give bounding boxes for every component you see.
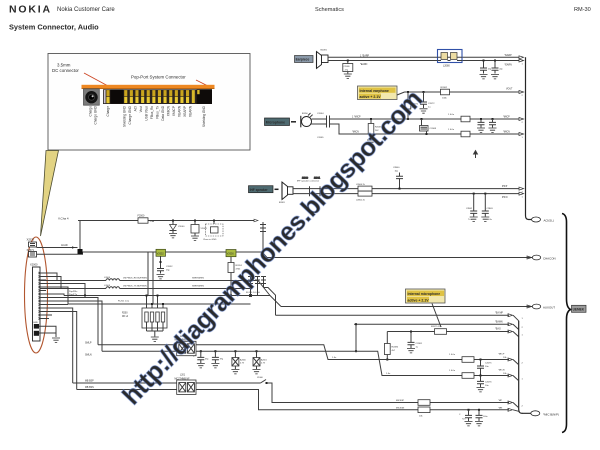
filter C2068 (420, 118, 437, 135)
offpage AUXOUT (532, 304, 555, 310)
wire VCHAR row (78, 220, 254, 222)
svg-text:*MP: *MP (498, 400, 503, 402)
svg-text:*EARP: *EARP (505, 54, 513, 57)
ground (477, 388, 485, 392)
ground (191, 236, 199, 240)
svg-text:1 0.0u: 1 0.0u (449, 354, 456, 356)
DC jack (84, 89, 100, 105)
label UEMEK (572, 305, 587, 312)
svg-text:SMR/SMSN: SMR/SMSN (192, 278, 204, 280)
wire MICB1N out (196, 390, 519, 418)
testpoint hatches (260, 222, 266, 252)
wire MIC1N out (196, 351, 519, 381)
svg-text:Microphone: Microphone (266, 121, 285, 125)
svg-text:active + 2.1V: active + 2.1V (408, 298, 430, 302)
highlight ellipse (25, 237, 48, 353)
ground (475, 422, 483, 426)
svg-text:C2072: C2072 (428, 103, 435, 105)
svg-text:L2005: L2005 (104, 285, 111, 287)
ground (480, 75, 488, 79)
svg-text:Charge GND: Charge GND (128, 105, 132, 124)
svg-text:C2052: C2052 (166, 266, 173, 268)
svg-text:V2050: V2050 (227, 253, 235, 256)
svg-text:System Connector, Audio: System Connector, Audio (9, 23, 99, 32)
resistor R2078 (462, 357, 474, 363)
wire CHACON row (83, 252, 533, 259)
wire VCHAR riser (79, 221, 81, 250)
resistor R2086 (384, 332, 398, 361)
svg-text:1 0.0u: 1 0.0u (448, 129, 455, 131)
offpage ACI (532, 217, 554, 223)
connector orange strip (82, 85, 215, 89)
capacitor C2080 (343, 60, 353, 74)
component V2052 (156, 249, 173, 273)
wire charger ACAD (37, 244, 78, 249)
svg-text:70n: 70n (462, 419, 465, 421)
svg-text:R2082: R2082 (441, 87, 448, 89)
svg-text:V.Cha 4: V.Cha 4 (58, 216, 69, 220)
label Microphone (265, 118, 297, 126)
note internal earphone (358, 86, 405, 100)
svg-text:IHFP: IHFP (502, 186, 508, 188)
resistor R2079 (462, 373, 474, 379)
svg-text:*MICP: *MICP (498, 354, 505, 356)
capacitor C2094 (476, 409, 488, 421)
ground (169, 234, 177, 238)
svg-text:IHFN: IHFN (502, 197, 508, 199)
svg-text:100n: 100n (483, 416, 487, 418)
resistor R2071 bias (405, 91, 419, 120)
ground (151, 337, 159, 341)
svg-text:L2004: L2004 (104, 277, 111, 279)
svg-text:MB BSP: MB BSP (85, 380, 94, 382)
ground (157, 275, 165, 279)
ground (197, 364, 205, 368)
capacitor C2075 (477, 359, 492, 377)
svg-text:Pop-Port System Connector: Pop-Port System Connector (131, 75, 186, 80)
svg-text:6.8u: 6.8u (488, 219, 492, 221)
svg-text:C2076: C2076 (485, 382, 492, 384)
svg-text:VOUT: VOUT (506, 88, 513, 90)
brace UEM group (562, 214, 571, 433)
ground (407, 349, 415, 353)
svg-text:USB Vbus: USB Vbus (145, 106, 149, 121)
wire FL200 upper row (40, 284, 281, 307)
capacitor C2076 (477, 376, 492, 388)
wire MICB1P out with switch (196, 377, 519, 408)
resistor R2077 (448, 129, 470, 137)
svg-text:ACAD: ACAD (61, 244, 68, 247)
earpiece speaker B2081 (317, 50, 329, 69)
svg-text:1.5A: 1.5A (150, 220, 155, 223)
svg-text:*MN: *MN (498, 408, 503, 410)
svg-text:RM-30: RM-30 (574, 7, 591, 13)
svg-text:XMICN: XMICN (167, 105, 171, 116)
varistor V2001 (191, 220, 208, 236)
svg-text:X2570: X2570 (27, 238, 35, 242)
label IHF speaker (249, 186, 279, 193)
svg-text:1M FBUS_RX BUF/BSN: 1M FBUS_RX BUF/BSN (123, 278, 147, 280)
ground (52, 338, 60, 342)
svg-text:ACI: ACI (134, 106, 138, 111)
wire MIC1P out (196, 345, 519, 365)
ground (231, 370, 239, 374)
label Earpiece (295, 56, 314, 63)
svg-text:V2052: V2052 (157, 252, 165, 255)
capacitor C2093 (459, 409, 472, 421)
svg-text:XEARP: XEARP (183, 106, 187, 117)
svg-text:PopP.Rx: PopP.Rx (69, 291, 78, 293)
wire XEARMP row (276, 311, 519, 320)
ground (211, 364, 219, 368)
svg-text:*EARN: *EARN (360, 63, 368, 66)
svg-text:SMLN: SMLN (85, 353, 92, 356)
offpage XMIC (531, 411, 559, 417)
ESD diode A2000 (232, 350, 247, 369)
svg-text:*EARN: *EARN (505, 64, 513, 67)
capacitor C2091 (212, 350, 224, 363)
annotation 3.5mm DC connector (52, 63, 109, 89)
svg-text:R2086: R2086 (392, 347, 399, 349)
svg-text:FBus_Rx: FBus_Rx (150, 106, 154, 120)
svg-text:C2065: C2065 (317, 137, 324, 139)
connector pins J2B (302, 178, 321, 197)
svg-text:Internal earphone: Internal earphone (360, 89, 389, 93)
component V2050 (226, 250, 243, 297)
svg-text:4.7V: 4.7V (261, 363, 266, 365)
svg-text:Shielding GND: Shielding GND (202, 105, 206, 127)
ESD diode A2001 (253, 350, 268, 369)
svg-text:MB BSN: MB BSN (85, 387, 94, 389)
wire XMICP row (312, 113, 524, 123)
svg-text:F2000: F2000 (138, 215, 145, 218)
inductor L2B00 (356, 184, 372, 191)
ground (491, 75, 499, 79)
resistor R2067 (418, 407, 430, 413)
capacitor C2074 (489, 118, 496, 128)
svg-text:C2068: C2068 (430, 128, 437, 130)
svg-text:*MICN: *MICN (352, 131, 359, 133)
wire FL201 lower row (40, 287, 251, 305)
wire XMICN row (311, 121, 524, 139)
capacitor C2081b (408, 331, 423, 349)
svg-text:C2B00: C2B00 (393, 167, 400, 169)
wire IHFP row (293, 186, 524, 190)
svg-text:FL201 1.0u: FL201 1.0u (118, 301, 130, 303)
svg-text:1 0.0u: 1 0.0u (448, 114, 455, 116)
bus2 vertical (519, 321, 531, 414)
svg-text:Nokia Customer Care: Nokia Customer Care (57, 7, 115, 13)
rotated pin name labels (89, 105, 206, 127)
svg-text:*MICN: *MICN (503, 132, 510, 134)
ground (470, 217, 478, 221)
wire XEARMN row (354, 320, 519, 352)
svg-text:C2081: C2081 (416, 343, 423, 345)
svg-text:Internal microphone: Internal microphone (408, 292, 441, 296)
svg-text:B2050: B2050 (302, 113, 309, 115)
svg-text:XEARN: XEARN (178, 105, 182, 117)
transformer U201 (175, 375, 197, 395)
capacitor C2072 (420, 91, 435, 109)
junction charger node (78, 249, 83, 254)
ground (481, 217, 489, 221)
wire shield pins to ground (39, 315, 56, 337)
vbat arrow (474, 151, 478, 158)
connector X2570 (27, 238, 37, 248)
inductor L2B01 (356, 191, 372, 201)
callout triangle (41, 151, 59, 237)
connector photo frame (48, 54, 250, 151)
svg-text:C2064: C2064 (317, 113, 324, 115)
svg-text:Earpiece: Earpiece (296, 58, 310, 62)
svg-text:XEARN: XEARN (189, 105, 193, 117)
svg-text:XMICP: XMICP (172, 106, 176, 116)
svg-text:*MIC B(N/P): *MIC B(N/P) (543, 412, 559, 416)
ground (477, 128, 485, 132)
pop-port pin block (103, 89, 212, 104)
ground (489, 128, 497, 132)
capacitor C2073 (478, 118, 485, 128)
wire SMLN row (40, 301, 177, 356)
svg-text:Data GND: Data GND (161, 105, 165, 120)
svg-text:Schematics: Schematics (315, 7, 344, 13)
svg-text:Charge: Charge (89, 106, 93, 117)
svg-text:C2B02: C2B02 (466, 208, 473, 210)
ground (253, 370, 261, 374)
svg-text:1 *MICP: 1 *MICP (352, 117, 361, 119)
svg-text:J2B00: J2B00 (302, 178, 309, 180)
svg-text:C2B03: C2B03 (487, 208, 494, 210)
svg-text:L2B00 2k: L2B00 2k (356, 184, 366, 186)
svg-text:R200: R200 (122, 313, 128, 315)
svg-text:Shielding GND: Shielding GND (123, 105, 127, 127)
svg-text:R2075 10k: R2075 10k (431, 326, 442, 328)
svg-text:1 0.0u: 1 0.0u (449, 370, 456, 372)
wedge V.Cha end (254, 219, 258, 222)
offpage CHACON (532, 255, 555, 260)
svg-text:L2080: L2080 (443, 64, 450, 67)
svg-text:FBus_Tx: FBus_Tx (156, 106, 160, 119)
wire VOUT row (405, 88, 524, 93)
ground (465, 422, 473, 426)
svg-text:MICB1P: MICB1P (396, 400, 405, 402)
capacitor C2082 (480, 60, 492, 74)
svg-text:A2000: A2000 (240, 359, 247, 362)
svg-text:Close in GND: Close in GND (203, 239, 217, 241)
svg-text:SMR/SMSN: SMR/SMSN (192, 286, 204, 288)
connector X2000 (30, 263, 46, 342)
EMI filter Z2080 (438, 50, 463, 68)
svg-text:UEMEK: UEMEK (573, 308, 585, 312)
resistor R2076 (448, 114, 470, 122)
wire XEARP row (328, 54, 524, 59)
svg-text:DC connector: DC connector (52, 68, 79, 73)
svg-text:Charge: Charge (106, 106, 110, 117)
svg-text:SMLP: SMLP (85, 341, 92, 344)
capacitor C2B00 (393, 167, 403, 189)
wire charge gnd (37, 252, 83, 254)
transformer U200 (175, 336, 197, 356)
svg-text:*MICN: *MICN (498, 370, 505, 372)
svg-text:CHACON: CHACON (543, 257, 556, 261)
svg-text:1M FBUS_TX BUF/BSN: 1M FBUS_TX BUF/BSN (123, 286, 147, 288)
wire AUXOUT row (281, 305, 532, 308)
svg-text:AUXOUT: AUXOUT (543, 306, 555, 310)
capacitor C2B02 (466, 193, 477, 221)
resistor R2066 (418, 400, 430, 406)
ground (344, 74, 352, 78)
svg-text:Vout: Vout (139, 106, 143, 112)
svg-text:MICB1N: MICB1N (396, 408, 405, 410)
svg-text:C2080: C2080 (344, 66, 351, 68)
wire MB BSP row (40, 308, 177, 383)
fuse F2000 (138, 215, 155, 224)
svg-text:1 *EARP: 1 *EARP (360, 54, 370, 57)
pin number digits at bus (522, 60, 524, 415)
diode V2000 (170, 220, 186, 234)
svg-text:Charge GND: Charge GND (94, 105, 98, 124)
bus XEAR-ACI vertical (526, 57, 532, 219)
svg-text:B2081: B2081 (321, 50, 328, 52)
resistor array R200 (122, 252, 167, 337)
capacitor C2B03 (482, 193, 494, 221)
ground (420, 109, 428, 113)
microphone B2050 (301, 113, 313, 127)
svg-text:GND: GND (33, 322, 38, 324)
svg-text:L2B01 2k: L2B01 2k (356, 199, 366, 201)
capacitor C2083 (492, 60, 504, 74)
note internal microphone (406, 289, 446, 327)
resistor R2082 (441, 87, 450, 99)
resistor R2075 (431, 326, 447, 334)
svg-text:V2001: V2001 (201, 228, 208, 230)
svg-text:3.5mm: 3.5mm (57, 63, 71, 68)
svg-text:X2000: X2000 (30, 263, 38, 267)
svg-text:L201: L201 (180, 375, 186, 377)
svg-text:active + 2.1V: active + 2.1V (360, 95, 382, 99)
wire SMLP row (40, 298, 177, 345)
ESD spark gaps (248, 276, 253, 297)
annotation Pop-Port System Connector (131, 75, 208, 88)
svg-text:*EAG: *EAG (495, 328, 501, 331)
ground (367, 140, 375, 144)
ESD component D2001 close to GND (203, 220, 223, 241)
svg-text:A2001: A2001 (261, 359, 268, 362)
wire MB BSN row (40, 312, 177, 390)
connector X2571 (27, 248, 37, 257)
svg-text:J2000: J2000 (257, 377, 264, 379)
svg-text:0R x4: 0R x4 (122, 316, 129, 318)
watermark (117, 85, 428, 410)
wire IHFN row (293, 192, 524, 199)
svg-text:*EA MP: *EA MP (495, 311, 503, 314)
svg-text:*EAMN: *EAMN (495, 320, 503, 323)
svg-text:V2000: V2000 (178, 226, 185, 228)
svg-text:IHF speaker: IHF speaker (250, 188, 269, 192)
svg-text:C2075: C2075 (485, 363, 492, 365)
svg-text:4.7V: 4.7V (240, 363, 245, 365)
wire FBUS_TX row (40, 277, 252, 289)
wire XEARG row (387, 328, 518, 337)
svg-text:B2081: B2081 (279, 202, 286, 204)
wire FBUS_RX row (40, 273, 270, 296)
capacitor C2090 (193, 350, 209, 363)
svg-text:*MICP: *MICP (503, 117, 510, 119)
wire XEARN row (328, 59, 524, 67)
svg-text:ACI(SL): ACI(SL) (544, 219, 554, 223)
resistor R2065 (368, 118, 382, 140)
IHF speaker B2081 (279, 182, 293, 204)
svg-text:NOKIA: NOKIA (9, 4, 52, 16)
